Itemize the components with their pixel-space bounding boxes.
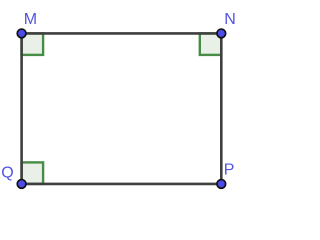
right-angle marker at Q <box>22 162 43 184</box>
svg-text:Q: Q <box>1 164 13 181</box>
point P <box>217 180 226 189</box>
point M <box>17 29 26 38</box>
wire segment MN (top side) <box>22 32 222 35</box>
wire segment MQ (left side) <box>20 33 23 184</box>
right-angle marker at M <box>22 33 43 55</box>
wire segment NP (right side) <box>220 33 223 184</box>
point N <box>217 29 226 38</box>
wire segment QP (bottom side) <box>22 183 222 186</box>
svg-text:N: N <box>224 11 236 28</box>
svg-text:P: P <box>224 162 235 179</box>
point Q <box>17 180 26 189</box>
right-angle marker at N <box>200 33 222 55</box>
svg-text:M: M <box>24 11 37 28</box>
